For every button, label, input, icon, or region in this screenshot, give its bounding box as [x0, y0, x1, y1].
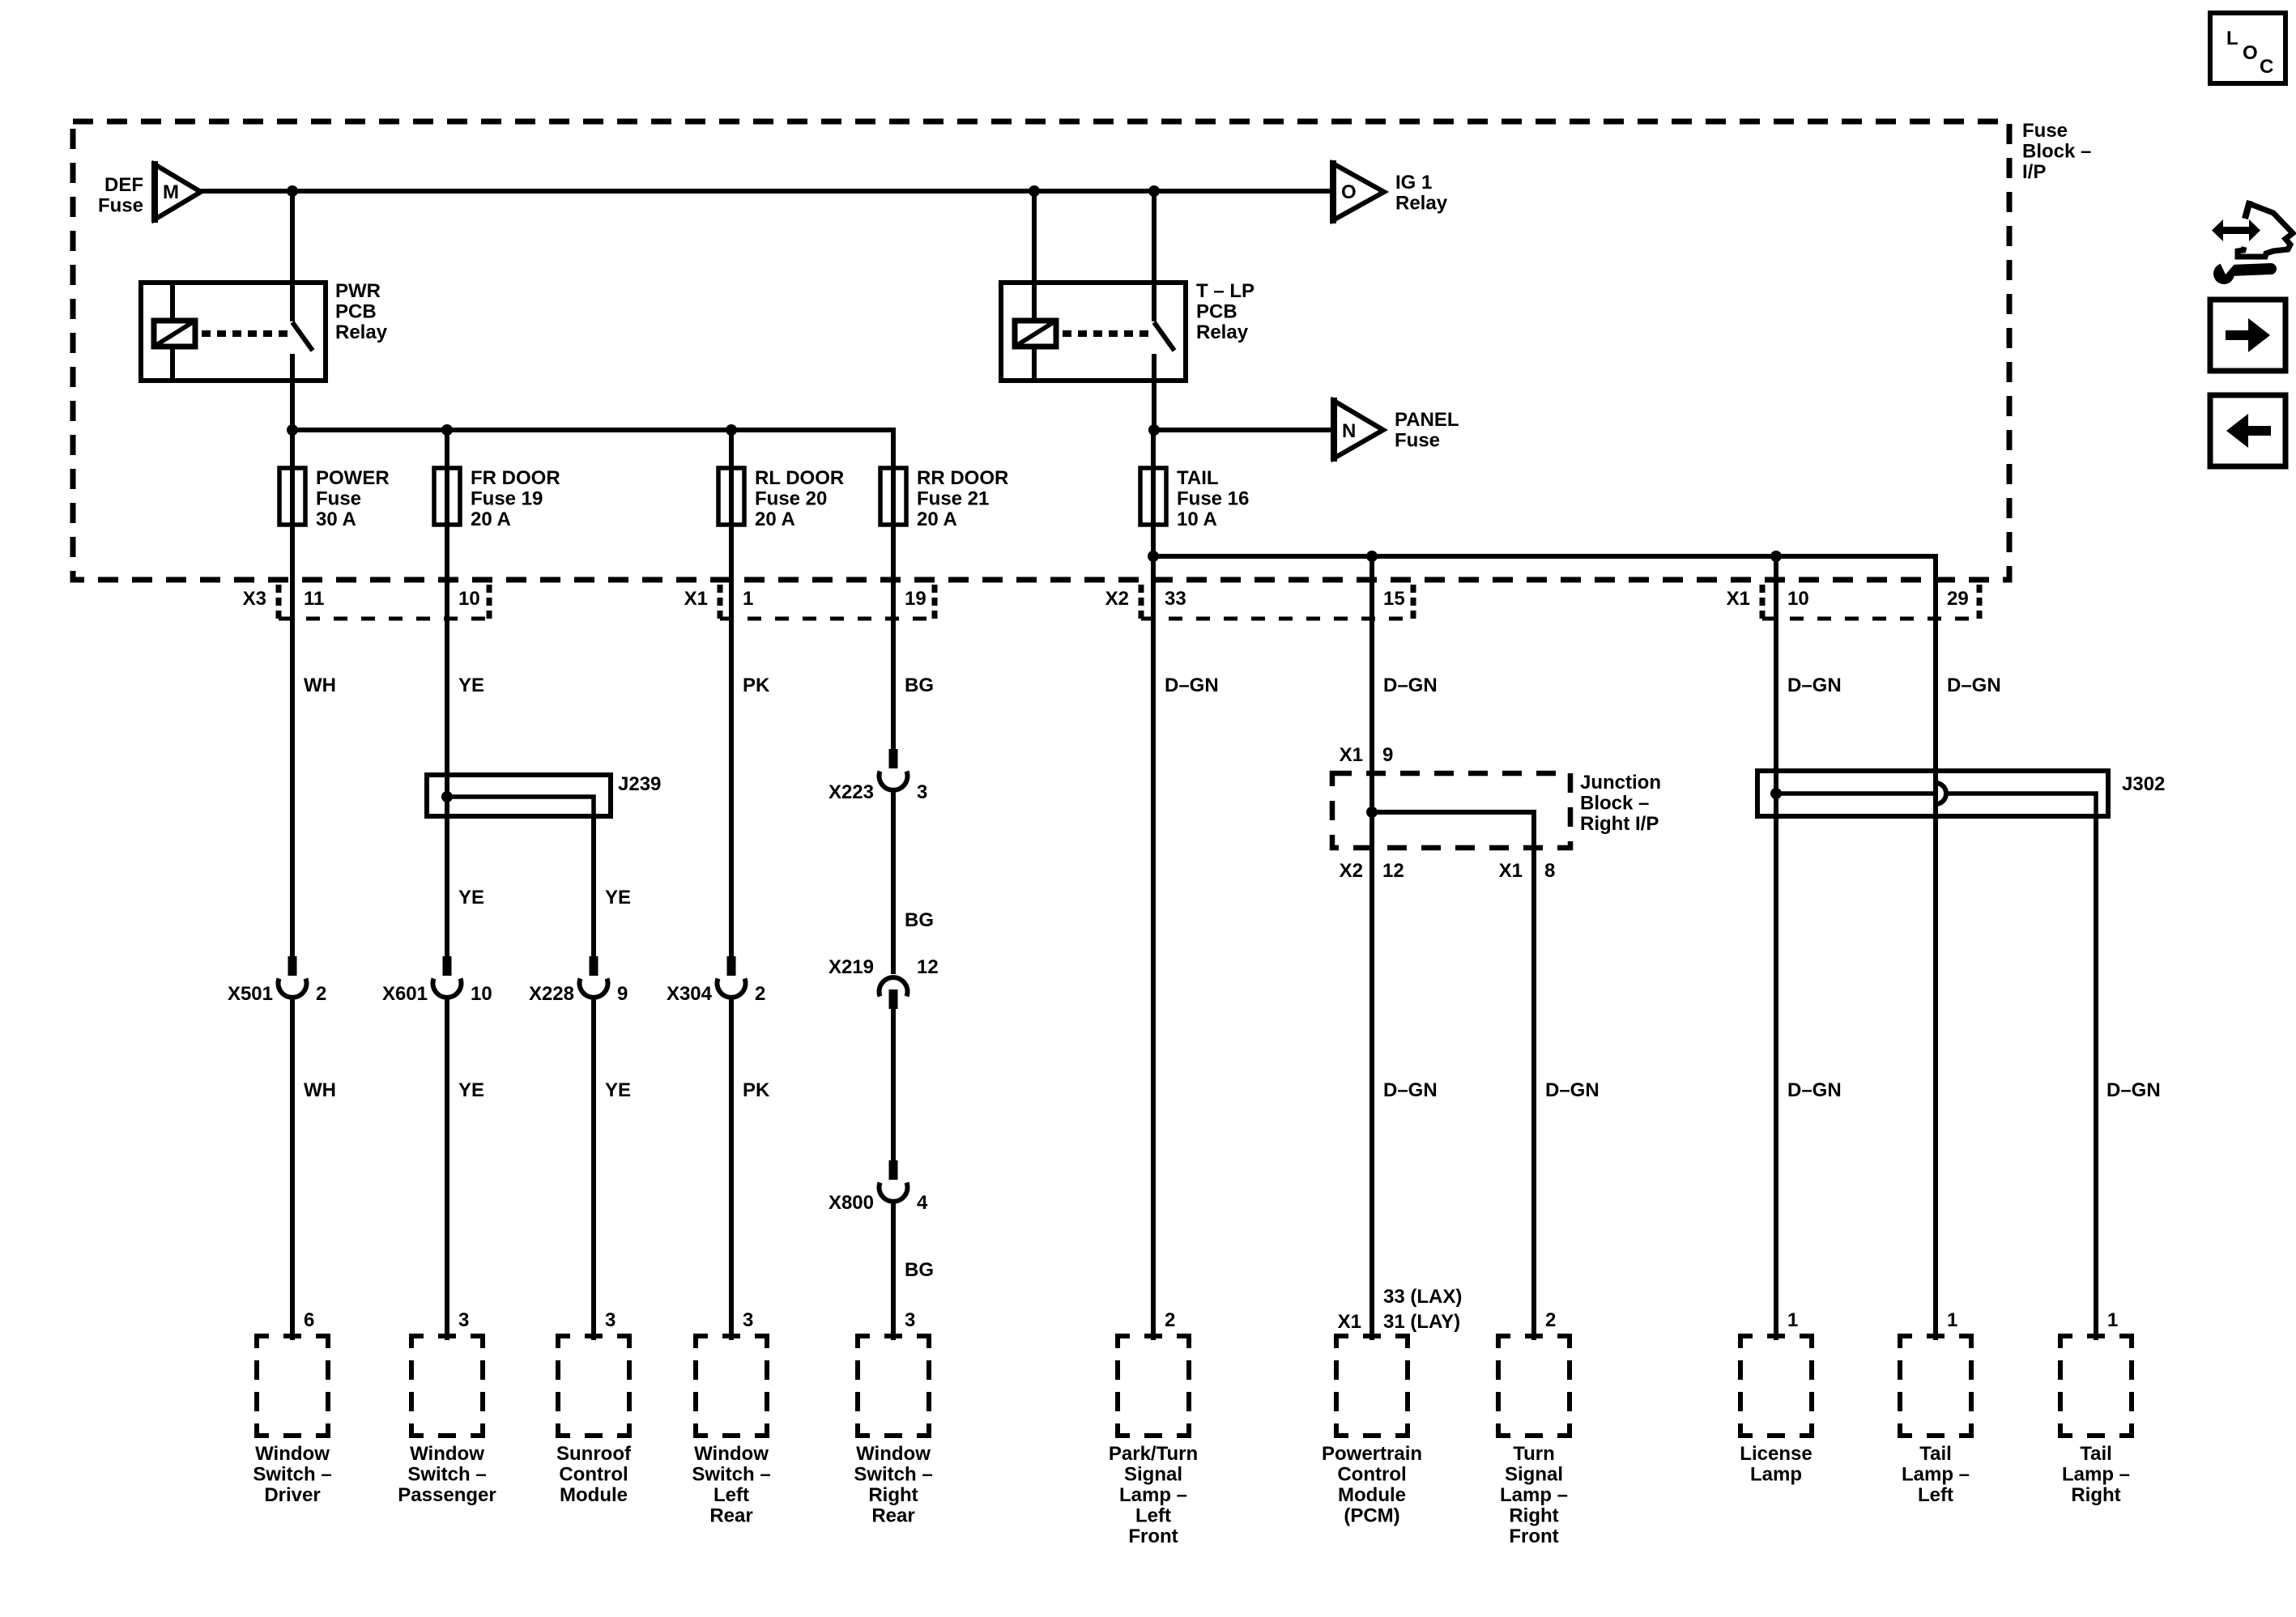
connector bracket X2: [1141, 585, 1413, 622]
svg-text:X219: X219: [829, 956, 874, 978]
PWR PCB Relay K1: [141, 191, 388, 430]
wire: BG, X223 to X219: [891, 791, 896, 974]
svg-text:PCB: PCB: [1196, 301, 1237, 323]
wire: line A to T-LP coil: [1032, 191, 1037, 321]
svg-text:Left: Left: [1918, 1484, 1953, 1506]
svg-text:Turn: Turn: [1513, 1443, 1555, 1465]
wire: line A to T-LP switch: [1152, 191, 1157, 321]
node: POWER fuse tap: [287, 424, 298, 436]
svg-text:Lamp –: Lamp –: [1119, 1484, 1187, 1506]
svg-text:X1: X1: [1499, 860, 1523, 882]
fuse POWER 30A: [279, 467, 390, 530]
svg-text:X304: X304: [667, 983, 713, 1005]
svg-text:PK: PK: [743, 674, 770, 696]
svg-text:Right I/P: Right I/P: [1580, 813, 1659, 835]
svg-text:Tail: Tail: [2080, 1443, 2112, 1465]
svg-text:Window: Window: [410, 1443, 484, 1465]
svg-text:RR DOOR: RR DOOR: [917, 467, 1008, 489]
svg-text:Park/Turn: Park/Turn: [1109, 1443, 1198, 1465]
node: tap to J302 feed: [1770, 551, 1782, 562]
node: TAIL fuse output junction: [1148, 551, 1159, 562]
component License Lamp: [1740, 1336, 1812, 1486]
component Window Switch - Left Rear: [692, 1336, 770, 1527]
svg-text:20 A: 20 A: [917, 509, 957, 530]
svg-text:DEF: DEF: [104, 174, 143, 196]
component Window Switch - Right Rear: [854, 1336, 932, 1527]
node: tap to T-LP relay switch: [1148, 185, 1160, 197]
svg-text:3: 3: [905, 1309, 915, 1331]
svg-text:Block –: Block –: [1580, 793, 1649, 815]
svg-text:29: 29: [1947, 588, 1969, 610]
svg-text:Fuse: Fuse: [1395, 430, 1440, 452]
wire: D-GN, J302 to Tail Lamp Right: [2094, 816, 2098, 1340]
svg-text:33 (LAX): 33 (LAX): [1383, 1286, 1462, 1308]
svg-text:Lamp –: Lamp –: [1902, 1464, 1970, 1486]
svg-text:9: 9: [1382, 744, 1393, 766]
T-LP PCB Relay K2: [1001, 191, 1254, 430]
svg-text:Fuse 19: Fuse 19: [471, 488, 543, 510]
component Turn Signal Lamp - Right Front: [1498, 1336, 1570, 1547]
svg-text:Window: Window: [694, 1443, 769, 1465]
wire: TAIL fuse output bus: [1153, 525, 1936, 771]
connector bracket X1 right: [1762, 585, 1979, 622]
svg-text:PANEL: PANEL: [1395, 409, 1459, 431]
in-line connector X228 pin 9: [580, 956, 608, 998]
svg-text:6: 6: [304, 1309, 314, 1331]
svg-text:O: O: [2243, 42, 2258, 64]
component Park/Turn Signal Lamp - Left Front: [1109, 1336, 1198, 1547]
svg-text:Right: Right: [868, 1484, 918, 1506]
svg-text:X2: X2: [1340, 860, 1363, 882]
svg-text:J302: J302: [2122, 773, 2165, 795]
svg-text:Lamp: Lamp: [1750, 1464, 1802, 1486]
in-line connector X601 pin 10: [433, 956, 462, 998]
svg-text:Tail: Tail: [1919, 1443, 1952, 1465]
wire: T-LP switch to PANEL node: [1152, 354, 1157, 430]
wire: D-GN, bus to junction block and PCM: [1370, 556, 1374, 1340]
node: tap to PWR relay switch: [287, 185, 298, 197]
svg-text:Switch –: Switch –: [253, 1464, 331, 1486]
svg-text:Relay: Relay: [335, 321, 388, 343]
svg-text:D–GN: D–GN: [2106, 1079, 2161, 1101]
svg-text:Relay: Relay: [1395, 193, 1448, 215]
wire: relay to POWER fuse: [290, 381, 295, 468]
svg-text:Fuse 21: Fuse 21: [917, 488, 989, 510]
in-line connector X304 pin 2: [718, 956, 746, 998]
svg-text:Switch –: Switch –: [692, 1464, 770, 1486]
splice pack J239: [427, 773, 661, 816]
svg-text:10: 10: [1787, 588, 1809, 610]
svg-text:Right: Right: [1509, 1505, 1558, 1527]
wire: YE to Sunroof Control Module: [591, 998, 596, 1340]
wire: BG to Window Switch Right Rear: [891, 1202, 896, 1340]
svg-text:D–GN: D–GN: [1947, 674, 2001, 696]
svg-text:YE: YE: [458, 674, 484, 696]
LOC reference box: [2210, 13, 2285, 83]
svg-text:YE: YE: [605, 887, 631, 908]
svg-text:L: L: [2226, 28, 2238, 49]
component Tail Lamp - Left: [1900, 1336, 1971, 1506]
svg-text:YE: YE: [605, 1079, 631, 1101]
wire: PK to Window Switch Left Rear: [729, 998, 734, 1340]
wire: WH to Window Switch Driver: [290, 998, 295, 1340]
svg-text:Switch –: Switch –: [407, 1464, 486, 1486]
svg-text:3: 3: [743, 1309, 753, 1331]
svg-text:Rear: Rear: [871, 1505, 914, 1527]
svg-text:20 A: 20 A: [471, 509, 511, 530]
svg-text:Signal: Signal: [1505, 1464, 1563, 1486]
svg-text:Fuse 16: Fuse 16: [1177, 488, 1249, 510]
component Window Switch - Driver: [253, 1336, 331, 1506]
svg-text:X2: X2: [1105, 588, 1129, 610]
svg-text:30 A: 30 A: [316, 509, 356, 530]
svg-text:Block –: Block –: [2022, 141, 2091, 163]
svg-text:X1: X1: [1340, 744, 1363, 766]
svg-text:Lamp –: Lamp –: [2062, 1464, 2130, 1486]
svg-text:WH: WH: [304, 1079, 336, 1101]
svg-text:8: 8: [1544, 860, 1555, 882]
svg-text:Fuse 20: Fuse 20: [755, 488, 827, 510]
wire: PWR relay output bus: [292, 430, 893, 468]
wire: YE, J239 to X228: [591, 816, 596, 956]
connector bracket X1: [720, 585, 935, 622]
svg-text:RL DOOR: RL DOOR: [755, 467, 844, 489]
svg-text:Sunroof: Sunroof: [556, 1443, 632, 1465]
connector bracket X3: [279, 585, 489, 622]
wire: DEF fuse feed bus (line A): [201, 189, 1333, 194]
svg-text:Powertrain: Powertrain: [1322, 1443, 1422, 1465]
svg-text:O: O: [1341, 181, 1357, 203]
splice pack J302: [1757, 771, 2165, 816]
wire: YE, FR DOOR fuse through J239 to X601: [445, 525, 449, 956]
in-line connector X223 pin 3: [880, 749, 908, 790]
svg-text:PK: PK: [743, 1079, 770, 1101]
svg-text:33: 33: [1165, 588, 1186, 610]
component Tail Lamp - Right: [2060, 1336, 2132, 1506]
svg-text:Passenger: Passenger: [398, 1484, 496, 1506]
IG 1 Relay terminal (O): [1333, 160, 1448, 223]
svg-text:BG: BG: [905, 909, 934, 931]
svg-text:2: 2: [1165, 1309, 1175, 1331]
svg-text:Fuse: Fuse: [2022, 120, 2068, 142]
component Powertrain Control Module: [1322, 1336, 1422, 1527]
svg-text:PWR: PWR: [335, 280, 381, 302]
svg-text:Window: Window: [255, 1443, 330, 1465]
in-line connector X219 pin 12: [879, 977, 907, 1009]
svg-text:D–GN: D–GN: [1787, 1079, 1842, 1101]
wire: T-LP switch to TAIL fuse: [1151, 430, 1156, 468]
svg-text:D–GN: D–GN: [1383, 674, 1438, 696]
svg-text:Right: Right: [2071, 1484, 2120, 1506]
svg-text:N: N: [1342, 420, 1356, 442]
svg-text:T – LP: T – LP: [1196, 280, 1254, 302]
svg-text:Control: Control: [1337, 1464, 1406, 1486]
svg-text:D–GN: D–GN: [1165, 674, 1219, 696]
coil: [1015, 321, 1056, 347]
svg-text:Module: Module: [560, 1484, 628, 1506]
svg-text:Relay: Relay: [1196, 321, 1249, 343]
svg-text:FR DOOR: FR DOOR: [471, 467, 560, 489]
svg-text:X800: X800: [829, 1192, 874, 1214]
svg-text:D–GN: D–GN: [1383, 1079, 1438, 1101]
DEF Fuse terminal (M): [98, 161, 201, 223]
svg-text:1: 1: [743, 588, 753, 610]
svg-text:X223: X223: [829, 781, 874, 803]
component Window Switch - Passenger: [398, 1336, 496, 1506]
svg-text:20 A: 20 A: [755, 509, 795, 530]
wire: PK, RL DOOR fuse to X304: [729, 525, 734, 956]
fuse block - I/P dashed boundary: [73, 121, 2009, 580]
wire: D-GN, bus to J302 and License Lamp: [1774, 556, 1778, 1340]
svg-text:3: 3: [917, 781, 927, 803]
svg-text:12: 12: [917, 956, 939, 978]
svg-text:Front: Front: [1509, 1526, 1558, 1547]
svg-text:3: 3: [605, 1309, 616, 1331]
svg-text:BG: BG: [905, 674, 934, 696]
svg-text:Rear: Rear: [709, 1505, 752, 1527]
svg-text:2: 2: [755, 983, 765, 1005]
node: tap to junction block X1-9: [1366, 551, 1378, 562]
svg-text:1: 1: [2107, 1309, 2118, 1331]
svg-text:YE: YE: [458, 1079, 484, 1101]
svg-text:J239: J239: [618, 773, 661, 795]
fuse RR DOOR 21: [880, 467, 1008, 530]
svg-text:X501: X501: [228, 983, 273, 1005]
svg-text:X3: X3: [243, 588, 266, 610]
svg-text:10 A: 10 A: [1177, 509, 1217, 530]
svg-text:M: M: [163, 181, 179, 203]
svg-text:WH: WH: [304, 674, 336, 696]
svg-text:12: 12: [1382, 860, 1404, 882]
wire: D-GN, bus to Tail Lamp Left (through J302 with hop): [1933, 771, 1938, 1340]
wire: WH, POWER fuse to X501: [290, 525, 295, 956]
svg-text:TAIL: TAIL: [1177, 467, 1219, 489]
svg-text:IG 1: IG 1: [1395, 172, 1432, 194]
svg-text:X228: X228: [529, 983, 574, 1005]
svg-text:4: 4: [917, 1192, 928, 1214]
svg-text:9: 9: [617, 983, 628, 1005]
svg-text:19: 19: [905, 588, 926, 610]
node: RL DOOR fuse tap: [726, 424, 737, 436]
svg-text:10: 10: [471, 983, 492, 1005]
wire: bus to RL DOOR fuse: [729, 430, 734, 468]
label: Fuse Block - I/P: [2022, 120, 2091, 183]
svg-text:2: 2: [316, 983, 326, 1005]
svg-text:Module: Module: [1338, 1484, 1406, 1506]
svg-text:Switch –: Switch –: [854, 1464, 932, 1486]
svg-text:2: 2: [1545, 1309, 1556, 1331]
svg-text:I/P: I/P: [2022, 161, 2046, 183]
svg-text:BG: BG: [905, 1259, 934, 1281]
wire: bus to FR DOOR fuse: [445, 430, 449, 468]
svg-text:(PCM): (PCM): [1344, 1505, 1399, 1527]
svg-text:Left: Left: [1135, 1505, 1171, 1527]
svg-text:Lamp –: Lamp –: [1500, 1484, 1568, 1506]
svg-text:Junction: Junction: [1580, 772, 1661, 794]
svg-text:Driver: Driver: [264, 1484, 320, 1506]
svg-text:X601: X601: [382, 983, 428, 1005]
svg-text:X1: X1: [1727, 588, 1750, 610]
svg-text:Left: Left: [714, 1484, 749, 1506]
svg-text:15: 15: [1383, 588, 1405, 610]
svg-text:YE: YE: [458, 887, 484, 908]
svg-text:Control: Control: [559, 1464, 628, 1486]
svg-text:Fuse: Fuse: [316, 488, 361, 510]
svg-text:D–GN: D–GN: [1787, 674, 1842, 696]
svg-text:11: 11: [304, 588, 324, 610]
svg-text:Fuse: Fuse: [98, 195, 143, 217]
svg-text:Signal: Signal: [1124, 1464, 1182, 1486]
wire: D-GN, TAIL fuse to Park/Turn lamp: [1151, 525, 1156, 1340]
svg-text:PCB: PCB: [335, 301, 377, 323]
node: FR DOOR fuse tap: [441, 424, 453, 436]
wire: YE to Window Switch Passenger: [445, 998, 449, 1340]
svg-text:Window: Window: [856, 1443, 931, 1465]
junction block - right I/P: [1332, 772, 1661, 1340]
svg-text:1: 1: [1947, 1309, 1957, 1331]
right-arrow nav box: [2210, 300, 2285, 371]
fuse TAIL 16: [1140, 467, 1249, 530]
svg-text:X1: X1: [684, 588, 708, 610]
wire: BG, RR DOOR fuse to X223: [891, 525, 896, 749]
fuse FR DOOR 19: [434, 467, 560, 530]
left-arrow nav box: [2210, 395, 2285, 466]
in-line connector X800 pin 4: [879, 1160, 907, 1202]
service/repair icon (double arrow, panel outline, wrench): [2212, 201, 2293, 284]
svg-text:31 (LAY): 31 (LAY): [1383, 1311, 1460, 1333]
svg-text:10: 10: [458, 588, 480, 610]
in-line connector X501 pin 2: [278, 956, 306, 998]
svg-text:X1: X1: [1338, 1311, 1361, 1333]
fuse RL DOOR 20: [718, 467, 844, 530]
node: tap to T-LP relay coil: [1029, 185, 1040, 197]
svg-text:POWER: POWER: [316, 467, 390, 489]
svg-text:Front: Front: [1128, 1526, 1178, 1547]
svg-text:C: C: [2260, 56, 2273, 78]
svg-text:1: 1: [1787, 1309, 1798, 1331]
svg-text:3: 3: [458, 1309, 469, 1331]
wire: BG, X219 to X800: [891, 1009, 896, 1160]
component Sunroof Control Module: [556, 1336, 632, 1506]
svg-text:License: License: [1740, 1443, 1812, 1465]
PANEL Fuse terminal (N): [1148, 398, 1459, 462]
svg-text:D–GN: D–GN: [1545, 1079, 1600, 1101]
